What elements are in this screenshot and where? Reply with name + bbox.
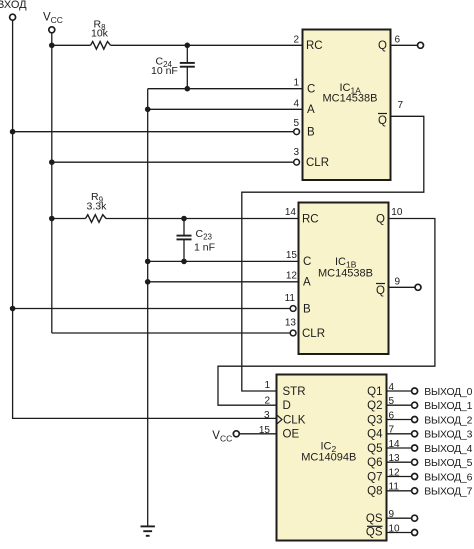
svg-text:9: 9 [395, 276, 401, 287]
terminal Q7 [412, 474, 418, 480]
svg-text:Q: Q [376, 213, 385, 225]
shift register IC2 MC14094B [277, 375, 387, 541]
svg-text:RC: RC [306, 40, 323, 52]
inverting bubble B pin 11 [290, 306, 296, 312]
svg-text:14: 14 [285, 207, 297, 218]
svg-text:5: 5 [293, 118, 299, 129]
ground [141, 526, 155, 535]
svg-text:12: 12 [286, 271, 298, 282]
svg-text:ВЫХОД_7: ВЫХОД_7 [424, 487, 472, 498]
svg-text:11: 11 [285, 293, 296, 304]
terminal Vcc OE [233, 431, 239, 437]
wire common vertical to ground [147, 89, 149, 527]
svg-text:13: 13 [285, 317, 297, 328]
svg-text:5: 5 [389, 396, 395, 407]
svg-text:MC14094B: MC14094B [301, 452, 356, 464]
svg-text:Q1: Q1 [367, 386, 382, 398]
svg-text:MC14538B: MC14538B [318, 267, 373, 279]
svg-text:4: 4 [293, 98, 299, 109]
terminal Q3 [412, 417, 418, 423]
wire QS output [387, 517, 412, 519]
svg-text:ВЫХОД_2: ВЫХОД_2 [424, 415, 472, 426]
terminal pin 6 [418, 42, 424, 48]
resistor R8 [91, 42, 111, 50]
svg-text:12: 12 [389, 467, 401, 478]
wire Q7 output [387, 476, 412, 478]
terminal Q6 [412, 459, 418, 465]
terminal /QS [412, 530, 418, 536]
svg-text:CLR: CLR [302, 328, 325, 340]
svg-text:10k: 10k [91, 28, 109, 40]
op IC1A MC14538B monostable [303, 30, 391, 181]
junction A1 [145, 107, 151, 113]
svg-text:RC: RC [302, 213, 319, 225]
svg-text:6: 6 [389, 410, 395, 421]
junction R8-C24 [185, 43, 191, 49]
svg-text:ВХОД: ВХОД [0, 0, 27, 11]
junction Vcc-CLR1 [49, 159, 55, 165]
svg-text:15: 15 [259, 425, 271, 436]
terminal Vcc [49, 27, 55, 33]
wire Vcc to R9 [52, 218, 86, 220]
junction R9-C23 [181, 216, 187, 222]
svg-text:C: C [303, 256, 311, 268]
svg-text:Q2: Q2 [367, 400, 382, 412]
svg-text:10: 10 [389, 523, 401, 534]
svg-text:Q3: Q3 [367, 414, 382, 426]
junction Vcc-R9 [49, 216, 55, 222]
svg-text:ВЫХОД_3: ВЫХОД_3 [424, 430, 472, 441]
wire Q6 output [387, 461, 412, 463]
wire Vcc vertical rail [51, 33, 53, 333]
svg-text:MC14538B: MC14538B [322, 93, 377, 105]
terminal Q8 [412, 488, 418, 494]
svg-text:1: 1 [293, 78, 299, 89]
wire C23 to C pin 15 [148, 260, 300, 262]
wire Q3 output [387, 419, 412, 421]
junction common-A2 [145, 279, 151, 285]
terminal Q5 [412, 445, 418, 451]
svg-text:QS: QS [366, 513, 383, 525]
terminal pin 9 [415, 284, 421, 290]
svg-text:11: 11 [389, 482, 400, 493]
wire ВХОД vertical rail [12, 20, 14, 419]
junction common-C2 [145, 259, 151, 265]
junction ВХОД-B1 [10, 129, 16, 135]
wire Q5 output [387, 447, 412, 449]
svg-text:B: B [303, 304, 311, 316]
svg-text:10: 10 [391, 207, 403, 218]
svg-text:2: 2 [264, 396, 270, 407]
wire R8 to RC pin 2 [111, 44, 304, 46]
svg-text:CLK: CLK [283, 414, 306, 426]
svg-text:ВЫХОД_4: ВЫХОД_4 [424, 444, 472, 455]
svg-text:ВЫХОД_0: ВЫХОД_0 [424, 387, 472, 398]
resistor R9 [86, 215, 107, 223]
wire ВХОД to CLK pin 3 [13, 417, 278, 419]
terminal Q4 [412, 431, 418, 437]
svg-text:13: 13 [389, 453, 401, 464]
inverting bubble CLR pin 3 [294, 159, 300, 165]
svg-text:A: A [303, 277, 311, 289]
terminal QS [412, 515, 418, 521]
wire Vcc to R8 [52, 44, 91, 46]
wire Q pin 10 to D pin 2 [218, 219, 435, 406]
svg-text:1: 1 [264, 380, 270, 391]
svg-text:Q: Q [376, 285, 385, 297]
svg-text:3: 3 [264, 410, 270, 421]
svg-text:Q7: Q7 [367, 471, 382, 483]
wire ВХОД to B pin 11 [13, 308, 291, 310]
svg-text:QS: QS [366, 527, 383, 539]
svg-text:6: 6 [395, 34, 401, 45]
svg-text:STR: STR [283, 386, 306, 398]
svg-text:Q8: Q8 [367, 486, 382, 498]
wire Vcc to OE pin 15 [239, 433, 277, 435]
wire Q2 output [387, 404, 412, 406]
svg-text:ВЫХОД_6: ВЫХОД_6 [424, 472, 472, 483]
inverting bubble CLR pin 13 [290, 330, 296, 336]
svg-text:ВЫХОД_1: ВЫХОД_1 [424, 401, 472, 412]
svg-text:A: A [307, 104, 315, 116]
inverting bubble B pin 5 [294, 129, 300, 135]
wire /QS output [387, 532, 412, 534]
wire Q8 output [387, 490, 412, 492]
svg-text:CLR: CLR [306, 157, 329, 169]
terminal ВХОД [10, 14, 16, 20]
svg-text:Q5: Q5 [367, 443, 382, 455]
svg-text:1 nF: 1 nF [194, 242, 215, 254]
wire ВХОД to B pin 5 [13, 131, 294, 133]
svg-text:Q: Q [378, 40, 387, 52]
svg-text:9: 9 [389, 509, 395, 520]
svg-text:Q: Q [378, 115, 387, 127]
svg-text:Q6: Q6 [367, 457, 382, 469]
wire to A pin 4 [148, 108, 304, 110]
svg-text:3: 3 [293, 147, 299, 158]
wire Vcc to CLR pin 3 [52, 161, 293, 163]
wire to A pin 12 [148, 281, 300, 283]
junction C24 bottom [185, 86, 191, 92]
wire /Q pin 9 out [389, 286, 415, 288]
svg-text:14: 14 [389, 439, 401, 450]
svg-text:2: 2 [293, 34, 299, 45]
svg-text:10 nF: 10 nF [151, 65, 178, 77]
svg-text:4: 4 [389, 382, 395, 393]
capacitor C23 [177, 219, 192, 262]
junction C23 bottom [181, 259, 187, 265]
wire R9 to RC pin 14 [106, 218, 300, 220]
wire Q pin 6 out [391, 44, 418, 46]
svg-text:15: 15 [286, 250, 298, 261]
wire Vcc to CLR pin 13 [52, 332, 290, 334]
terminal Q1 [412, 388, 418, 394]
junction Vcc-R8 [49, 43, 55, 49]
wire Q1 output [387, 390, 412, 392]
wire C24 to C pin 1 [148, 88, 304, 90]
svg-text:D: D [283, 400, 291, 412]
svg-text:OE: OE [283, 429, 300, 441]
svg-text:7: 7 [389, 425, 395, 436]
capacitor C24 [180, 45, 195, 88]
svg-text:B: B [307, 127, 315, 139]
junction ВХОД-B2 [10, 306, 16, 312]
svg-text:7: 7 [398, 100, 404, 111]
svg-text:3.3k: 3.3k [87, 200, 108, 212]
svg-text:C: C [307, 84, 315, 96]
terminal Q2 [412, 402, 418, 408]
op IC1B MC14538B monostable [299, 203, 389, 355]
wire /Q pin 7 to STR pin 1 [242, 116, 424, 391]
svg-text:Q4: Q4 [367, 429, 383, 441]
svg-text:ВЫХОД_5: ВЫХОД_5 [424, 458, 472, 469]
wire Q4 output [387, 433, 412, 435]
